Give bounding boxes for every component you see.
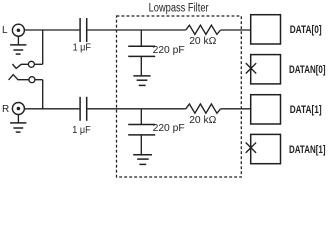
capacitor C4 220pF (bottom, shunt) — [128, 109, 155, 155]
wire switch SW2 to R line — [42, 80, 44, 109]
wire L line to switch SW1 — [42, 30, 44, 64]
ground (bottom 220pF) — [133, 155, 152, 165]
svg-text:DATA[1]: DATA[1] — [290, 104, 322, 116]
svg-text:1 μF: 1 μF — [72, 125, 90, 136]
capacitor C3 1uF (bottom) — [80, 97, 87, 121]
svg-text:1 μF: 1 μF — [73, 43, 91, 54]
wire resistor to DATA[1] box — [221, 108, 251, 110]
ground (L jack) — [10, 36, 26, 54]
wire L jack to C1 — [25, 29, 80, 31]
svg-text:R: R — [2, 104, 9, 115]
svg-text:DATAN[0]: DATAN[0] — [289, 64, 326, 76]
svg-text:DATAN[1]: DATAN[1] — [289, 144, 326, 156]
wire C3 to R2 (junction at node B) — [87, 108, 185, 110]
pin box DATA[1] — [251, 95, 281, 124]
no-connect X (DATAN[1]) — [246, 143, 256, 153]
svg-text:DATA[0]: DATA[0] — [290, 24, 322, 36]
wire R jack to C3 — [25, 108, 80, 110]
wire C1 to R1 (through filter box, junction at node A) — [87, 29, 185, 31]
lowpass filter dashed box — [117, 16, 242, 177]
capacitor C2 220pF (top, shunt) — [128, 30, 155, 76]
ground (top 220pF) — [133, 76, 150, 86]
switch SW1 (mute, L) — [12, 61, 42, 68]
ground (R jack) — [10, 115, 26, 133]
pin box DATA[0] — [251, 15, 281, 44]
svg-text:220 pF: 220 pF — [153, 123, 185, 134]
no-connect X (DATAN[0]) — [246, 63, 256, 73]
resistor 20k (bottom) — [186, 104, 221, 113]
connector J1 (L jack) — [12, 24, 24, 36]
connector J2 (R jack) — [12, 103, 24, 115]
switch SW2 (mute, R) — [9, 75, 43, 83]
pin box DATAN[1] — [251, 134, 281, 163]
svg-text:L: L — [2, 25, 8, 36]
svg-text:20 kΩ: 20 kΩ — [189, 115, 216, 126]
svg-text:20 kΩ: 20 kΩ — [189, 36, 216, 47]
svg-text:220 pF: 220 pF — [153, 45, 185, 56]
svg-text:Lowpass Filter: Lowpass Filter — [149, 2, 209, 14]
capacitor C1 1uF (top) — [80, 18, 87, 42]
pin box DATAN[0] — [251, 55, 281, 84]
resistor 20k (top) — [186, 25, 221, 34]
wire resistor to DATA[0] box — [221, 29, 251, 31]
